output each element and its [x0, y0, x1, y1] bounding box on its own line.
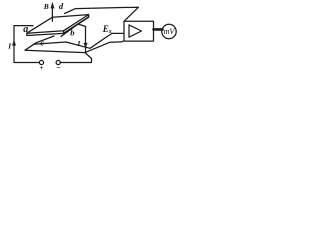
wire amp to meter: [154, 28, 163, 31]
B field arrow shaft: [51, 5, 53, 21]
amplifier triangle: [129, 25, 142, 37]
svg-text:c: c: [40, 37, 44, 47]
slab right end lower edge: [61, 24, 78, 36]
wire left feed to a electrode and down to battery: [14, 26, 39, 63]
slab front face: [27, 31, 64, 36]
amplifier box: [124, 21, 154, 41]
svg-text:mV: mV: [164, 27, 176, 36]
slab right end face: [64, 15, 89, 34]
B field arrowhead: [51, 3, 54, 9]
bottom right wire from battery up to b electrode: [60, 24, 91, 63]
current arrow down on right wire: [84, 43, 87, 48]
svg-text:+: +: [40, 64, 44, 72]
wire from d electrode (back face) to amplifier upper input: [65, 7, 139, 21]
svg-text:b: b: [70, 27, 74, 37]
slab top face: [27, 15, 89, 34]
lower hall wire to amplifier bottom corner: [25, 41, 124, 53]
current arrow up on left wire: [12, 41, 15, 46]
svg-text:B: B: [43, 2, 49, 11]
wire from c electrode under plate: [25, 36, 54, 50]
upper hall wire to amplifier lower input: [34, 33, 125, 48]
svg-text:a: a: [23, 24, 28, 35]
battery terminal -: [56, 60, 60, 64]
battery terminal +: [39, 60, 43, 64]
millivoltmeter circle: [162, 24, 176, 38]
svg-text:−: −: [56, 63, 61, 72]
